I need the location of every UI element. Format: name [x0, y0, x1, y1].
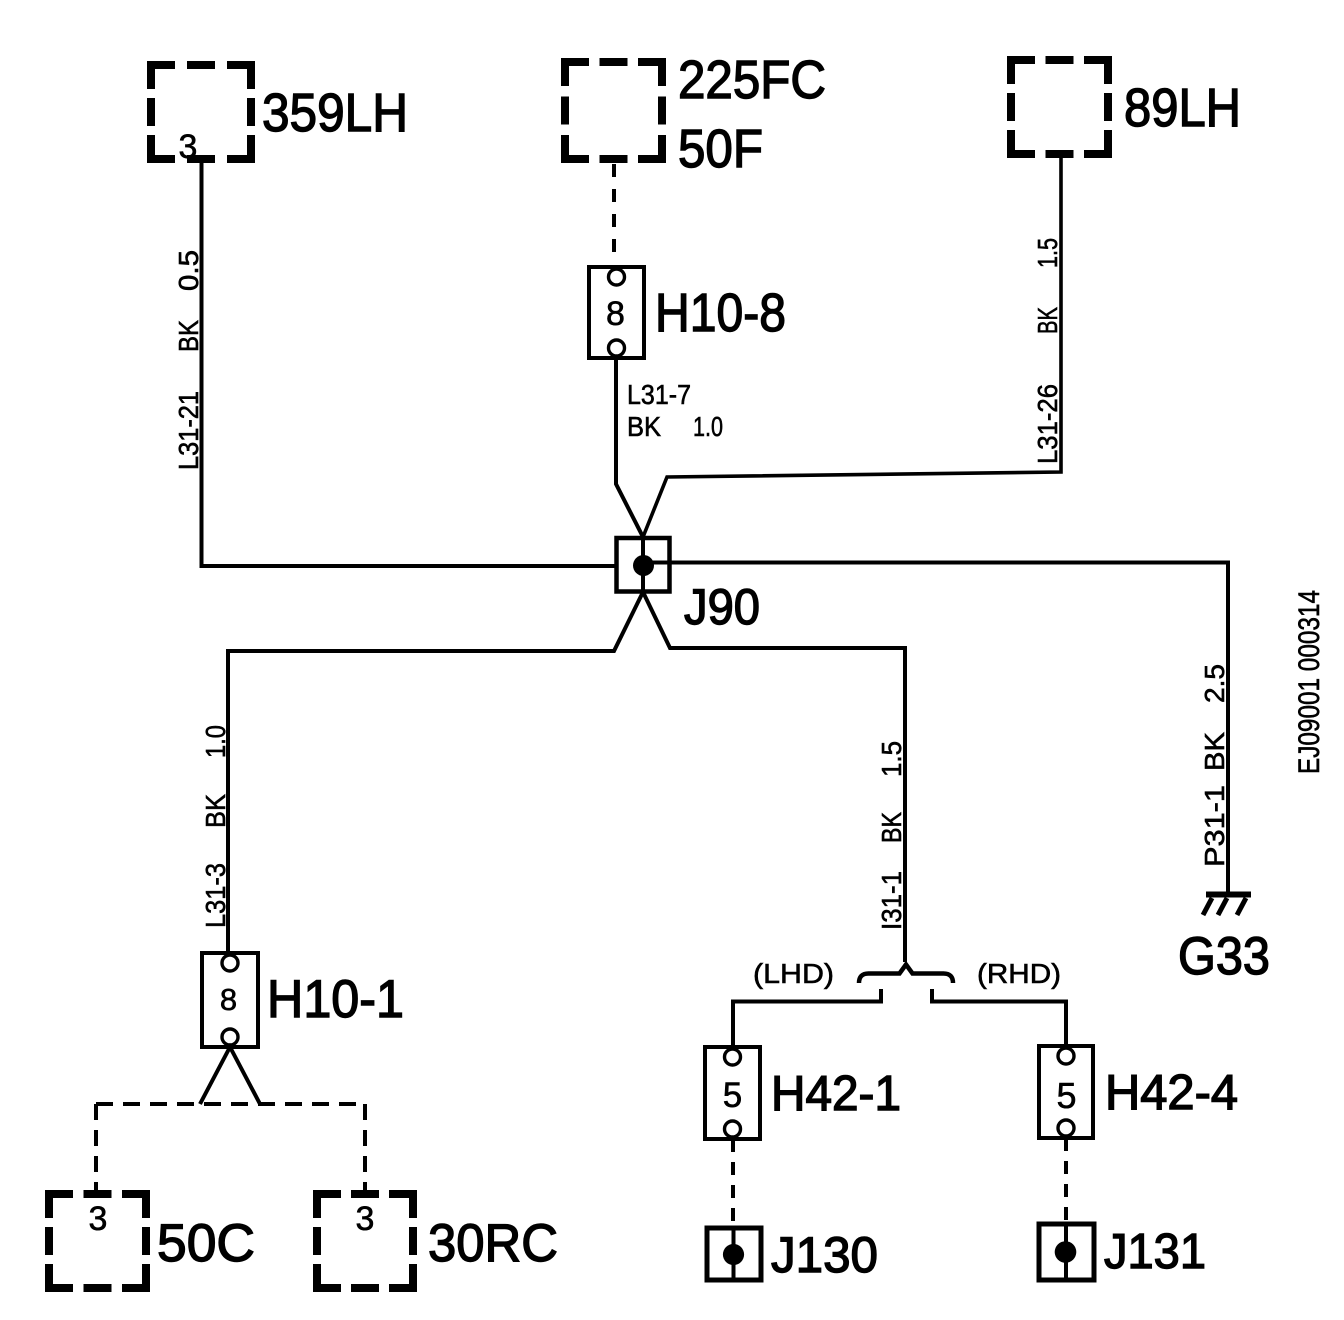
svg-text:50F: 50F [678, 119, 763, 179]
svg-text:89LH: 89LH [1124, 78, 1241, 138]
LHD/RHD split brace [859, 965, 953, 984]
svg-text:BK: BK [1199, 732, 1230, 771]
connector H42-1 [705, 1047, 760, 1139]
svg-text:1.5: 1.5 [1032, 238, 1063, 268]
dashed wire from 225FC/50F to H10-8 [612, 164, 616, 264]
svg-text:3: 3 [89, 1200, 108, 1238]
svg-text:L31-21: L31-21 [173, 391, 204, 470]
svg-text:359LH: 359LH [262, 83, 408, 143]
svg-text:8: 8 [220, 982, 237, 1017]
connector box 359LH [147, 61, 255, 163]
dashed wire H42-4 to J131 [1064, 1138, 1068, 1228]
junction J131 [1039, 1224, 1094, 1280]
svg-text:(RHD): (RHD) [977, 958, 1061, 989]
svg-text:0.5: 0.5 [173, 250, 204, 291]
svg-text:BK: BK [200, 794, 231, 828]
svg-text:3: 3 [356, 1200, 375, 1238]
svg-text:1.0: 1.0 [200, 725, 231, 758]
junction dot J90 [633, 555, 654, 576]
svg-text:EJ09001 000314: EJ09001 000314 [1293, 590, 1326, 774]
svg-text:H10-1: H10-1 [267, 970, 404, 1029]
svg-text:2.5: 2.5 [1199, 664, 1230, 703]
svg-text:1.5: 1.5 [876, 741, 907, 777]
svg-text:L31-7: L31-7 [627, 379, 691, 410]
connector box 225FC/50F [561, 58, 666, 163]
connector box 30RC [313, 1190, 417, 1292]
junction J90 [617, 538, 670, 592]
svg-text:BK: BK [627, 411, 661, 442]
wire L31-21 from 359LH pin 3 to J90 [202, 163, 646, 566]
wire stub through J90 [641, 535, 645, 592]
svg-text:I31-1: I31-1 [876, 871, 907, 930]
svg-text:5: 5 [723, 1076, 742, 1115]
connector H10-8 [589, 267, 644, 358]
dashed wire H42-1 to J130 [731, 1139, 735, 1228]
svg-text:H10-8: H10-8 [655, 283, 786, 343]
wire LHD branch to H42-1 [733, 989, 881, 1047]
wire L31-26 from 89LH to J90 [643, 158, 1061, 537]
svg-text:P31-1: P31-1 [1199, 785, 1230, 867]
connector box 89LH [1007, 56, 1112, 158]
dashed wire to 30RC [363, 1104, 367, 1190]
svg-text:J130: J130 [771, 1227, 878, 1283]
dashed wire to 50C [94, 1104, 98, 1190]
svg-text:3: 3 [179, 128, 198, 166]
svg-text:H42-4: H42-4 [1105, 1066, 1238, 1120]
ground symbol G33 [1203, 895, 1251, 916]
svg-text:J90: J90 [684, 579, 760, 635]
svg-text:1.0: 1.0 [693, 411, 723, 442]
connector box 50C [45, 1190, 150, 1292]
connector H42-4 [1039, 1046, 1093, 1138]
wire I31-1 from J90 to LHD/RHD split [643, 592, 905, 962]
svg-text:G33: G33 [1178, 927, 1270, 986]
svg-text:BK: BK [876, 812, 907, 843]
svg-text:H42-1: H42-1 [771, 1067, 901, 1121]
wire L31-7 from H10-8 to J90 [616, 358, 643, 592]
svg-text:30RC: 30RC [428, 1214, 558, 1273]
dashed net to 50C and 30RC [96, 1102, 365, 1106]
svg-text:50C: 50C [157, 1214, 255, 1273]
wire through J90 to G33 [641, 563, 1228, 894]
svg-text:(LHD): (LHD) [753, 958, 834, 989]
connector H10-1 [202, 953, 258, 1047]
wire RHD branch to H42-4 [932, 989, 1066, 1046]
svg-text:8: 8 [606, 295, 625, 333]
svg-text:5: 5 [1056, 1075, 1076, 1116]
svg-text:J131: J131 [1104, 1225, 1206, 1279]
svg-text:225FC: 225FC [678, 50, 826, 110]
branch V below H10-1 [200, 1047, 260, 1104]
junction J130 [707, 1228, 761, 1280]
svg-text:L31-3: L31-3 [200, 863, 231, 928]
wire L31-3 from J90 to H10-1 [228, 592, 643, 953]
svg-text:BK: BK [1032, 307, 1063, 334]
svg-text:L31-26: L31-26 [1032, 384, 1063, 464]
svg-text:BK: BK [173, 320, 204, 352]
